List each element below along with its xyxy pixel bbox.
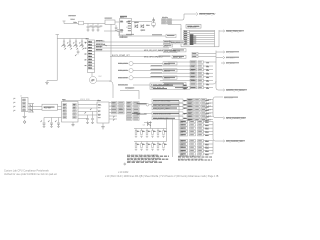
label texture top area — [85, 13, 247, 141]
wire VIN rail — [64, 23, 105, 25]
ground GND U3 — [71, 122, 74, 126]
connector J3 label — [186, 25, 201, 29]
node J1 pin numbers left — [85, 42, 86, 62]
wire matrix right vertical — [166, 118, 168, 142]
resistor RA5 — [157, 129, 161, 138]
LED D1 — [118, 61, 163, 65]
resistor row G3 R1 — [180, 143, 213, 146]
svg-text:Q3: Q3 — [143, 125, 145, 127]
capacitor C8 — [55, 121, 60, 128]
LED D2 — [118, 68, 163, 72]
wire bus line y36 — [104, 31, 176, 38]
svg-text:C2: C2 — [94, 27, 96, 29]
svg-text:4: 4 — [13, 111, 14, 113]
connector J3 gnd column — [190, 34, 196, 45]
wire bus group1 — [213, 100, 223, 120]
label texture notes — [127, 156, 212, 162]
svg-text:1: 1 — [13, 99, 14, 101]
resistor R6 — [80, 39, 84, 48]
node long row y100.5 — [152, 99, 183, 103]
svg-text:GPIO_EXP: GPIO_EXP — [224, 98, 234, 100]
resistor row G3 R3 — [180, 149, 213, 152]
note text block right — [178, 155, 203, 161]
resistor RA6 — [162, 129, 166, 138]
svg-text:X1: X1 — [91, 81, 93, 83]
wire short row y53.5 — [192, 52, 216, 54]
capacitor C5 — [75, 50, 79, 57]
wire left col bus — [178, 101, 180, 153]
capacitor C3 — [97, 24, 102, 32]
node long row y113.5 — [132, 112, 183, 116]
resistor row RN y80.4 — [160, 79, 213, 82]
resistor row G2c — [180, 127, 213, 130]
wire U3 out rows — [78, 105, 97, 119]
resistor row G1 PA3 — [187, 108, 213, 111]
resistor RB5 — [157, 142, 161, 151]
node bus3 end label — [170, 40, 186, 44]
capacitor C1 — [87, 24, 92, 32]
wire right bus mid — [213, 51, 223, 91]
power flag 3V3 — [56, 35, 60, 39]
resistor R1 — [162, 17, 172, 24]
crystal Y1 — [146, 18, 155, 28]
node flag group1 — [223, 117, 245, 120]
svg-text:8: 8 — [85, 60, 86, 62]
wire bus line 1 — [95, 41, 164, 43]
node long row y118 — [152, 116, 183, 120]
node flag y52 — [216, 51, 234, 54]
wire bus group2 — [213, 122, 223, 142]
node row label y50.5 — [144, 49, 186, 53]
wire swd label — [120, 88, 139, 99]
wire U1 out — [132, 21, 153, 23]
wire U2 pin down long — [109, 24, 113, 98]
capacitor C9 — [85, 112, 89, 124]
node bus5 end label — [172, 55, 186, 59]
wire row U5e — [109, 115, 139, 121]
node VBUS flag — [196, 13, 216, 17]
wire row y85 — [118, 85, 150, 87]
ground GND left — [45, 81, 57, 85]
resistor row G2d — [180, 130, 213, 133]
svg-text:2: 2 — [13, 103, 14, 105]
wire row flag y97 — [213, 97, 234, 100]
resistor row G2e — [180, 134, 213, 137]
filter FL1 — [42, 104, 58, 110]
node pin name specks — [184, 85, 186, 120]
footer logo mark — [123, 162, 127, 167]
label texture connectors — [23, 26, 200, 145]
resistor row U5c — [109, 108, 139, 111]
buzzer LS1 — [89, 73, 102, 84]
resistor R4 — [68, 39, 72, 48]
resistor row G1 PA5 — [187, 115, 213, 118]
label texture small labels — [14, 15, 101, 118]
footer left text — [4, 170, 57, 177]
node resistor cluster specks — [65, 42, 87, 49]
resistor row G1 PA4 — [187, 112, 213, 115]
resistor RA1 — [135, 129, 139, 138]
resistor bank row A rail — [134, 128, 167, 130]
resistor RA3 — [146, 129, 150, 138]
resistor row G1 PA0 — [187, 98, 213, 101]
wire J3 to flag — [219, 30, 223, 32]
resistor row G1 PA6 — [187, 118, 213, 121]
resistor row RN y87.6 — [174, 86, 213, 90]
resistor row G1 PA1 — [187, 102, 213, 105]
resistor RB6 — [162, 142, 166, 151]
svg-text:FL1 90R: FL1 90R — [44, 108, 52, 110]
label texture left area — [63, 16, 131, 81]
svg-text:Verified for use qmk2 10/29/24: Verified for use qmk2 10/29/24 rev A4 mi… — [4, 173, 57, 176]
capacitor C4 — [115, 25, 118, 31]
connector U3 module — [62, 99, 79, 122]
node LED2 row label — [163, 69, 177, 73]
wire Q3 to rail — [144, 123, 152, 129]
connector J3 pin boxes — [184, 30, 190, 46]
node bus4 end label — [164, 50, 178, 53]
wire bus line 2 — [95, 43, 164, 46]
connector J2 USB — [20, 96, 28, 112]
resistor RB3 — [146, 142, 150, 151]
wire crystal stub — [168, 25, 181, 31]
node UART flag — [223, 89, 245, 92]
resistor row G3 R4 — [180, 153, 213, 156]
node long row y87.8 — [150, 86, 183, 89]
IC U5 box A — [97, 100, 109, 123]
resistor bank row B rail — [134, 141, 167, 143]
wire U2 to U1 — [115, 21, 120, 23]
regulator U2 — [105, 18, 116, 24]
resistor R3 — [62, 39, 66, 48]
wire bus line 4 — [95, 50, 164, 52]
wire USB data lines — [34, 107, 42, 110]
wire to VBUS flag — [172, 14, 197, 20]
wire left vertical drop — [56, 39, 58, 81]
resistor row RN y84 — [163, 82, 213, 86]
node long row y104.8 — [139, 103, 183, 107]
svg-text:❖: ❖ — [123, 162, 127, 167]
wire under-box rail — [44, 118, 62, 123]
resistor row G1 PA2 — [187, 105, 213, 108]
ground GND U5 — [101, 127, 105, 129]
wire bus line 5 — [110, 54, 157, 57]
resistor row U5d — [109, 112, 139, 115]
resistor row U5b — [109, 105, 139, 108]
transistor Q3 — [143, 122, 151, 127]
transistor Q2 — [141, 25, 144, 33]
power flag VIN — [63, 16, 75, 24]
label texture long rows — [153, 41, 188, 119]
resistor row G2a — [180, 120, 213, 123]
node LED1 row label — [163, 62, 177, 66]
wire bus line 3 — [95, 47, 170, 49]
node bus2 end label — [164, 44, 173, 47]
diode array D4 ESD — [28, 104, 34, 113]
resistor row G3 R2 — [180, 146, 213, 149]
footer right small text — [118, 171, 129, 174]
transistor Q1 — [134, 23, 138, 29]
capacitor C10 — [90, 109, 94, 124]
capacitor C7 — [48, 121, 53, 128]
wire bus group3 — [212, 141, 214, 154]
resistor row G2b — [180, 124, 213, 127]
capacitor C2 — [92, 24, 97, 32]
node long row y84.5 — [150, 83, 183, 86]
wire J3 left bus — [181, 28, 219, 47]
label texture G rows — [181, 99, 209, 155]
svg-text:3: 3 — [13, 107, 14, 109]
wire 3V3 rail — [57, 38, 87, 40]
resistor RA4 — [151, 129, 155, 138]
wire U3 top vbus — [64, 101, 98, 102]
capacitor C6 — [41, 121, 46, 128]
wire FL1 to U3 — [58, 107, 62, 110]
op-amp U1 — [119, 17, 132, 39]
LED D3 — [118, 76, 163, 80]
resistor row RN y66 — [150, 65, 213, 68]
svg-text:v.10 | BLC OLD | 1006 lines FR: v.10 | BLC OLD | 1006 lines FR-QB | Shee… — [105, 175, 219, 178]
node bus1 end label — [164, 40, 173, 43]
node LED3 row label — [163, 76, 177, 80]
svg-text:VBUS_SNS: VBUS_SNS — [80, 99, 90, 101]
footer bottom line — [105, 175, 219, 178]
svg-text:C3: C3 — [99, 27, 101, 29]
connector J1 ladder — [86, 39, 95, 73]
resistor row G3 R0 — [180, 139, 213, 142]
resistor RB1 — [135, 142, 139, 151]
wire J2 shield down — [24, 112, 26, 117]
wire U1 bottom pin — [122, 35, 124, 38]
svg-text:J2: J2 — [20, 96, 22, 98]
svg-text:VBUS_DET_5V: VBUS_DET_5V — [199, 14, 216, 16]
wire U5 gnd stem — [102, 123, 104, 127]
resistor R5 — [74, 39, 78, 48]
resistor row RN y69.6 — [150, 68, 213, 71]
label texture mid row wires — [151, 65, 162, 77]
svg-text:v.10 1062: v.10 1062 — [118, 171, 129, 174]
wire buzzer to node — [97, 80, 111, 82]
ferrite bead FB1 — [73, 21, 84, 25]
node flag y63 — [221, 62, 235, 65]
node flag group2 — [223, 140, 243, 143]
wire matrix right vertical 2 — [172, 119, 174, 157]
ground GND J2 — [23, 117, 27, 124]
node SWDIO flag — [223, 30, 242, 33]
node long row y108.1 — [152, 107, 183, 111]
wire U1 pin left EN — [117, 30, 120, 32]
resistor RA2 — [140, 129, 144, 138]
svg-text:MOD_IRQ_EXT_WAKE: MOD_IRQ_EXT_WAKE — [144, 49, 164, 52]
resistor row U5a — [109, 102, 139, 105]
note text block left — [127, 154, 161, 163]
svg-text:C1: C1 — [89, 27, 91, 29]
wire J3 right rail — [214, 30, 216, 47]
connector J2 pin labels — [13, 99, 14, 113]
wire top row y62 — [168, 61, 216, 63]
resistor row RN y73.2 — [150, 72, 213, 75]
connector J3 row wires — [190, 30, 215, 44]
label texture mid block — [191, 53, 209, 89]
resistor RB4 — [151, 142, 155, 151]
node flag y57.5 — [216, 56, 235, 59]
resistor RB2 — [140, 142, 144, 151]
wire short row y56.5 — [192, 55, 216, 57]
resistor row RN y76.8 — [150, 76, 213, 79]
svg-text:BOOT0_STRAP_OPT: BOOT0_STRAP_OPT — [112, 54, 131, 57]
